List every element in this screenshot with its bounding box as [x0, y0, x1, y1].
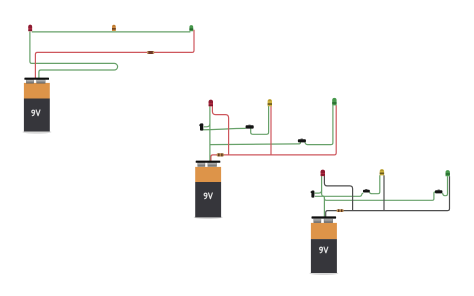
wire W2 green battery negative circuit1: [30, 32, 118, 79]
LED D5 yellow circuit2: [268, 99, 272, 106]
wire W18 green switch S6 to green LED circuit3: [443, 176, 448, 196]
battery BAT3 9V circuit3: [309, 216, 338, 275]
wire W14 green branch to switch S4 circuit3: [315, 190, 322, 193]
wire W6 green bus to switch S2 circuit2: [202, 128, 246, 129]
switch S2 horizontal circuit2: [246, 125, 254, 129]
LED D9 green circuit3: [446, 170, 450, 176]
wire W8 green bus2 to switch S3 circuit2: [210, 142, 301, 145]
wire W10 red red-LED drop circuit2: [212, 106, 228, 155]
LED D1 red circuit1: [28, 25, 32, 32]
switch S5 horizontal circuit3: [363, 189, 370, 192]
wire W12 red bottom bus circuit2: [211, 105, 336, 161]
resistor R3 on black bus circuit3: [337, 209, 344, 212]
wire W17 green long bus to switch S6 circuit3: [324, 192, 435, 200]
battery BAT1 9V circuit1: [22, 78, 51, 134]
wire W9 green switch S3 to green LED circuit2: [305, 105, 333, 144]
wire W20 black yellow-LED drop circuit3: [383, 175, 385, 210]
wire W21 black bottom bus and green-LED drop circuit3: [326, 176, 450, 217]
LED D3 green circuit1: [189, 25, 193, 31]
resistor R1 circuit1: [147, 51, 154, 54]
wire W11 red yellow-LED drop circuit2: [270, 106, 272, 155]
wire W3 red battery positive circuit1: [35, 30, 194, 79]
LED D2 orange circuit1: [112, 25, 116, 31]
wire W16 green switch S5 to yellow LED circuit3: [369, 175, 379, 193]
LED D4 red circuit2: [209, 100, 213, 107]
wire W19 black red-LED drop circuit3: [324, 176, 352, 211]
wire W13 green red-LED lead to battery circuit3: [322, 176, 325, 217]
LED D7 red circuit3: [321, 170, 325, 176]
LED D8 yellow circuit3: [380, 169, 384, 175]
switch S6 horizontal circuit3: [435, 190, 442, 194]
LED D6 green circuit2: [332, 98, 336, 106]
wire W1 green bus LED row circuit1: [32, 31, 191, 33]
battery BAT2 9V circuit2: [194, 161, 223, 219]
wire W7 green switch S2 to yellow LED circuit2: [251, 106, 269, 134]
switch S1 vertical circuit2: [199, 123, 203, 130]
switch S4 vertical circuit3: [311, 191, 315, 198]
resistor R2 on red bus circuit2: [217, 153, 224, 156]
wire W15 green branch to switch S5 circuit3: [315, 193, 363, 196]
wire W5 green branch to switch S1 circuit2: [204, 124, 210, 127]
wire W4 green red-LED lead to battery circuit2: [209, 106, 211, 161]
switch S3 horizontal circuit2: [298, 139, 306, 143]
